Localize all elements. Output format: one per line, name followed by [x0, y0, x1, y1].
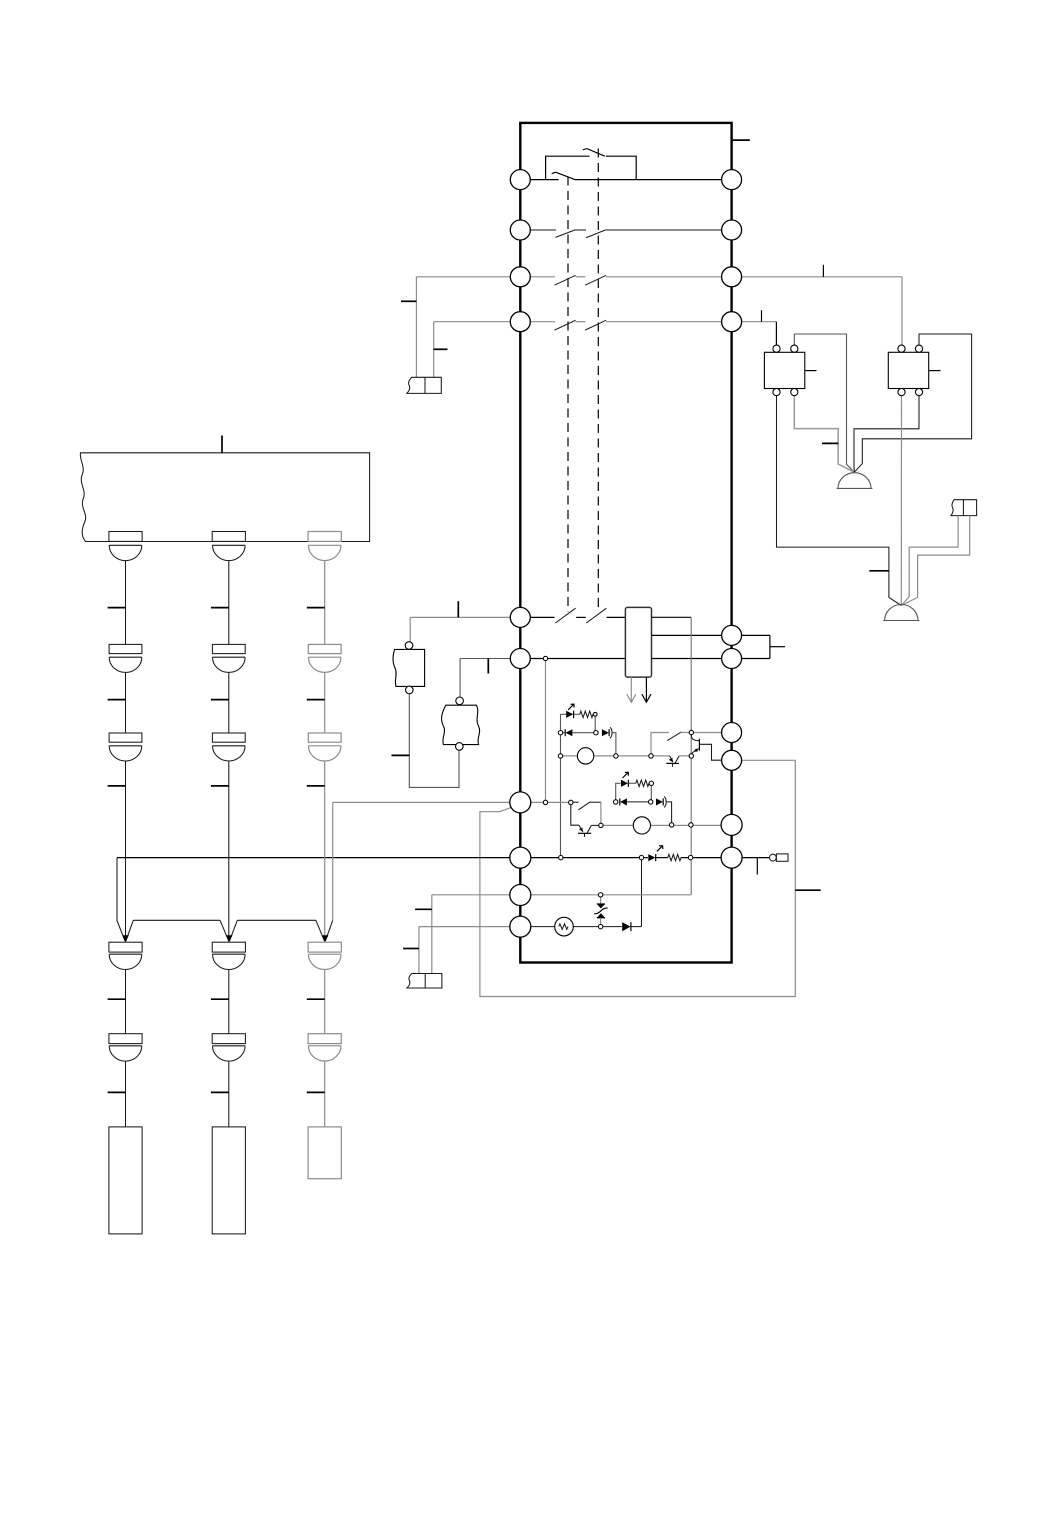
chain3 connector CN3a — [308, 532, 341, 561]
tick chain3 t1 — [307, 607, 325, 609]
right pin bracket row635-658 — [742, 635, 770, 658]
LED LED3 — [648, 846, 663, 862]
wire node to diode row — [594, 716, 596, 732]
connector CN-R — [951, 500, 977, 516]
wire row617 left — [410, 617, 520, 641]
chain3 connector CN3e — [308, 1034, 341, 1061]
wire row1 — [520, 179, 731, 181]
chain3 connector CN3b — [308, 644, 341, 672]
switch SW7 over motor row — [651, 732, 691, 754]
wire row2 — [520, 229, 731, 231]
arrow A2 under K1 — [642, 677, 651, 702]
wire chain2 seg3 — [228, 761, 230, 942]
terminal node circle R1 end — [593, 712, 597, 716]
tick B1 right — [806, 370, 817, 372]
wire motor M1 to nodes — [594, 755, 670, 757]
wire row4 to box B1 — [775, 322, 777, 345]
wire CN-R pin1 to SP2 — [901, 516, 958, 606]
photodiode D4 — [656, 797, 666, 808]
tick T2 row3 — [401, 300, 416, 302]
wire D1 to node — [572, 732, 596, 734]
wire row802 — [520, 801, 568, 803]
filter box B2 — [888, 352, 928, 388]
transistor Q2 PNP inline — [666, 756, 679, 767]
chain2 connector CN2d — [212, 942, 245, 969]
tick T6 row617 — [457, 601, 459, 617]
resistor R1 — [580, 711, 593, 717]
wire B1 out to speaker SP1 — [794, 396, 854, 473]
speaker SP2 — [883, 605, 919, 621]
chain1 connector CN1e — [109, 1034, 142, 1061]
switch SW6 blades row617 — [555, 608, 606, 623]
tick T9 FFC1 wire — [392, 754, 410, 756]
wire row617 inside — [520, 616, 625, 618]
relay K1 body — [625, 607, 651, 677]
wire D3 to node — [627, 801, 649, 803]
tick chain2 t3 — [211, 785, 229, 787]
chain2 connector CN2c — [212, 733, 245, 761]
wire node to pin row732 — [691, 732, 731, 734]
tick T12 row895 — [415, 908, 432, 910]
tick chain3 t2 — [307, 699, 325, 701]
wire chain1 seg5 — [125, 1061, 127, 1127]
mechanical link dashed line L2 — [597, 149, 599, 613]
wire B1 out to speaker SP2 — [777, 396, 902, 606]
tick T14 MB1 top — [221, 436, 223, 453]
wire node down block2 — [650, 785, 652, 800]
tick T1 on U1 right edge — [733, 139, 750, 141]
wire chain2 seg2 — [228, 672, 230, 733]
wire chain3 feed from row802 — [333, 802, 521, 920]
wire row895 — [432, 895, 691, 974]
arrow AR3 chain3 — [322, 935, 329, 942]
wire row4 — [434, 322, 777, 378]
harness funnel chain3 — [316, 920, 333, 941]
wire FFC1 bottom loop — [409, 694, 459, 788]
wire B1 loop to speaker SP1 — [794, 334, 854, 472]
U1 left pins — [510, 170, 531, 938]
wire B2 loop to speaker SP1 — [854, 334, 971, 472]
node circles bottom rows — [559, 855, 693, 928]
wire diode row1 — [561, 732, 566, 734]
wire K1 to rail — [652, 616, 692, 618]
wire rail to row857 node — [641, 858, 643, 927]
chain3 connector CN3d — [308, 942, 341, 969]
connector CN-B — [407, 974, 442, 989]
tick T11 row857 — [756, 858, 758, 875]
wire chain2 seg4 — [228, 970, 230, 1034]
wire row3 — [416, 277, 902, 378]
wire row658 left to FFC2 — [460, 659, 520, 698]
wire chain3 seg2 — [324, 672, 326, 733]
arrow AR2 chain2 — [226, 935, 233, 942]
tick chain2 t1 — [211, 607, 229, 609]
wire R1 to node — [593, 713, 595, 715]
gray return loop wire — [480, 760, 795, 996]
chain3 connector CN3c — [308, 733, 341, 761]
diode D5 — [622, 922, 631, 931]
tick T16 speaker2 — [869, 570, 889, 572]
rail R-A block1 — [560, 714, 562, 857]
tick T10 loop right — [795, 889, 820, 891]
tick chain1 t1 — [108, 607, 126, 609]
wire LED2 to R2 — [628, 782, 635, 784]
box B2 pins — [898, 345, 923, 396]
photodiode D3 — [620, 798, 627, 805]
tick B2 right — [929, 370, 940, 372]
switch SW3 blades row2 — [556, 230, 606, 238]
chain2 connector CN2e — [212, 1034, 245, 1061]
node circles block2 — [543, 656, 693, 827]
wire motor row1 — [561, 755, 578, 757]
tick chain2 t2 — [211, 699, 229, 701]
wire row658 — [520, 658, 731, 660]
wire chain3 seg1 — [324, 561, 326, 645]
chain2 connector CN2a — [212, 532, 245, 561]
tick T5 row4 right — [761, 310, 763, 322]
LED LED1 — [566, 704, 574, 718]
node circles block1 — [558, 730, 693, 758]
harness funnel chain1 — [117, 858, 133, 941]
chain1 connector CN1b — [109, 644, 142, 672]
wire B2 out to speaker SP1 — [854, 396, 919, 473]
wire chain3 seg5 — [324, 1061, 326, 1127]
tick T13 row926 — [403, 948, 419, 950]
tick chain1 t4 — [108, 998, 126, 1000]
harness wire h3 — [237, 919, 316, 921]
arrow A1 under K1 — [627, 677, 636, 702]
chain1 connector CN1a — [109, 532, 142, 561]
resistor R2 — [636, 780, 649, 786]
switch SW4 blades row3 — [555, 275, 607, 285]
wire chain1 seg4 — [125, 970, 127, 1034]
tick T3 row3 right — [822, 265, 824, 277]
tick T7 row658 — [487, 659, 489, 674]
arrow AR1 chain1 — [122, 935, 129, 942]
tick T8 bracket — [770, 646, 785, 648]
wire chain1 seg2 — [125, 672, 127, 733]
wire chain1 seg1 — [125, 561, 127, 645]
FFC1 flat cable — [393, 642, 425, 694]
FFC2 flat cable — [442, 697, 480, 750]
block2 LED feed corner — [616, 783, 621, 800]
switch SW1 blade — [552, 172, 575, 179]
resistor R3 — [668, 854, 681, 860]
harness wire h2 — [133, 919, 220, 921]
filter box B1 — [764, 352, 804, 388]
chain1 connector CN1d — [109, 942, 142, 969]
rail N1 vertical — [690, 617, 692, 895]
terminal TR1 chain1 — [109, 1127, 142, 1234]
wire R2 to node — [649, 782, 652, 784]
wire chain2 seg5 — [228, 1061, 230, 1127]
switch SW5 blades row4 — [555, 320, 607, 330]
tick chain1 t2 — [108, 699, 126, 701]
transistor Q3 PNP block2 — [571, 805, 599, 838]
wire LED1 to R1 — [574, 713, 580, 715]
wire Q2 to node — [679, 755, 691, 757]
switch SW2 blade — [583, 149, 605, 157]
wire D2 corner down — [612, 733, 616, 754]
wire row926 left — [419, 927, 520, 974]
photodiode D1 — [565, 729, 572, 736]
chain1 connector CN1c — [109, 733, 142, 761]
connector CN-A — [407, 377, 442, 393]
motor M3 with thermal element — [555, 917, 574, 936]
wire D4 corner down — [666, 802, 671, 823]
mechanical link dashed line L1 — [567, 177, 569, 613]
transistor Q1 NPN — [691, 735, 721, 761]
wire chain1 seg3 — [125, 761, 127, 942]
wire motor row2 — [603, 824, 732, 826]
wire row926 inside — [520, 926, 641, 928]
photodiode D2 — [602, 727, 612, 738]
wire node658 down x545 — [545, 661, 547, 803]
tick chain2 t4 — [211, 998, 229, 1000]
key switch S-KEY — [770, 854, 789, 861]
wire B2 out to speaker SP2 — [900, 396, 902, 606]
tick chain3 t3 — [307, 785, 325, 787]
wire LED1 row — [561, 713, 567, 715]
motor M2 — [633, 817, 650, 834]
wire chain3 seg4 — [324, 970, 326, 1034]
wire row857 long — [117, 857, 770, 859]
tick chain1 t3 — [108, 785, 126, 787]
wire CN-R pin2 to SP2 — [901, 516, 969, 606]
terminal TR2 chain2 — [212, 1127, 245, 1234]
main unit U1 outline — [520, 123, 731, 963]
tick chain3 t4 — [307, 998, 325, 1000]
LED LED2 — [621, 772, 628, 787]
box B1 pins — [773, 345, 798, 396]
tick chain3 t5 — [307, 1091, 325, 1093]
tick T4 row4 — [434, 348, 448, 350]
mechanism block MB1 — [80, 453, 369, 542]
tick chain1 t5 — [108, 1091, 126, 1093]
tick chain2 t5 — [211, 1091, 229, 1093]
zener TVS Z1 — [594, 897, 607, 925]
speaker SP1 — [837, 473, 873, 489]
tick T15 speaker1 — [822, 442, 838, 444]
wire chain3 seg3 — [324, 761, 326, 942]
U1 right pins — [721, 170, 742, 869]
switch SW8 block2 — [573, 802, 601, 824]
motor M1 — [577, 748, 593, 764]
wire K1 to pin row635 — [652, 634, 732, 636]
switch SW1 bypass wire — [546, 156, 637, 179]
harness funnel chain2 — [220, 920, 237, 941]
terminal TR3 chain3 — [308, 1127, 341, 1179]
chain2 connector CN2b — [212, 644, 245, 672]
wire chain2 seg1 — [228, 561, 230, 645]
